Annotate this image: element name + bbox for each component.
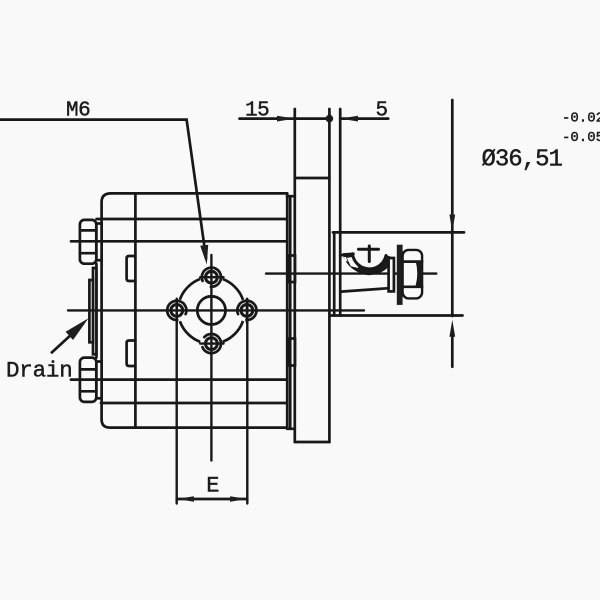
svg-text:-0.05: -0.05 bbox=[562, 130, 600, 146]
bottom bolt hex head bbox=[80, 358, 96, 402]
shaft taper bottom edge bbox=[341, 288, 389, 291]
svg-text:5: 5 bbox=[376, 100, 389, 123]
diameter dim line lower bbox=[451, 334, 454, 367]
pump body right edge bbox=[286, 193, 289, 426]
diameter dim line upper bbox=[451, 100, 454, 316]
centerline vertical bbox=[210, 255, 212, 461]
hole tick bottom bbox=[200, 342, 223, 344]
E dimension line bbox=[177, 498, 248, 501]
shaft top edge stub bbox=[340, 253, 344, 256]
flange boss upper bbox=[290, 256, 295, 283]
extension line pilot face bbox=[339, 109, 342, 316]
dimension line 5 bbox=[340, 117, 388, 120]
key top rim bbox=[344, 253, 354, 256]
pilot spigot inner line bbox=[333, 232, 336, 315]
extension line flange rear bbox=[293, 109, 296, 442]
mounting hole bottom bbox=[203, 334, 222, 353]
bolt circle bbox=[178, 277, 244, 343]
hole masks bbox=[166, 266, 259, 355]
M6 leader bbox=[0, 120, 206, 259]
mounting hole top M6 bbox=[202, 268, 221, 287]
key cross vertical bbox=[368, 246, 371, 262]
mounting hole right bbox=[237, 301, 256, 320]
E arrow right bbox=[230, 496, 247, 502]
neck bottom bbox=[287, 427, 295, 430]
arrow 5 bbox=[340, 116, 358, 122]
body line upper bbox=[97, 218, 288, 221]
flange boss lower bbox=[290, 339, 295, 366]
nut chamfer face bbox=[416, 261, 423, 286]
E extension line right bbox=[246, 299, 248, 504]
centerline shaft bbox=[266, 272, 436, 274]
key cross horizontal bbox=[359, 248, 379, 251]
svg-text:15: 15 bbox=[245, 100, 269, 123]
body line lower bbox=[101, 402, 287, 405]
flange bottom edge bbox=[295, 441, 330, 444]
plain washer bbox=[389, 258, 394, 291]
rear cover face line bbox=[95, 264, 98, 358]
dimension line 15 bbox=[240, 117, 330, 120]
key bowl semicircle bbox=[353, 254, 387, 269]
drain arrowhead bbox=[66, 318, 89, 340]
svg-text:Drain: Drain bbox=[6, 358, 73, 384]
top bolt hex head bbox=[80, 220, 96, 264]
neck top bbox=[287, 195, 295, 198]
diameter arrow down bbox=[449, 215, 455, 232]
key white patch bbox=[347, 257, 359, 268]
top bolt washer bbox=[96, 224, 101, 261]
bottom bolt washer bbox=[96, 362, 101, 399]
shaft top edge right stub bbox=[385, 256, 389, 259]
M6 leader arrowhead bbox=[200, 245, 208, 265]
drain leader bbox=[52, 333, 73, 353]
center bore circle bbox=[197, 296, 225, 324]
svg-text:Ø36,51: Ø36,51 bbox=[482, 147, 563, 174]
key white patch 2 bbox=[344, 257, 348, 262]
rear plate B bbox=[89, 280, 93, 342]
cover port boss upper bbox=[127, 256, 136, 281]
woodruff key crescent bbox=[344, 254, 394, 275]
body line top-bolt bbox=[71, 240, 287, 243]
hole tick left bbox=[176, 299, 178, 323]
mounting hole left bbox=[167, 301, 186, 320]
extension line mounting face bbox=[328, 109, 331, 442]
pilot top boundary line bbox=[333, 231, 464, 234]
svg-text:M6: M6 bbox=[66, 99, 90, 122]
pilot bottom boundary line bbox=[331, 314, 463, 317]
body line bottom-bolt bbox=[71, 378, 287, 381]
pump body outline bbox=[102, 193, 288, 427]
diameter arrow up bbox=[449, 320, 455, 337]
svg-text:-0.02: -0.02 bbox=[562, 110, 600, 126]
centerline pattern horizontal bbox=[68, 309, 364, 311]
flange top edge bbox=[295, 177, 330, 180]
hole tick top bbox=[200, 276, 223, 278]
spring washer bbox=[397, 245, 403, 305]
shaft nut bbox=[403, 250, 423, 299]
dimension dot bbox=[326, 115, 334, 123]
cover port boss lower bbox=[127, 341, 136, 367]
arrow 15 bbox=[277, 116, 295, 122]
E arrow left bbox=[177, 496, 194, 502]
hole tick right bbox=[246, 299, 248, 323]
gasket line bbox=[289, 196, 292, 429]
E extension line left bbox=[175, 299, 177, 504]
svg-text:E: E bbox=[206, 473, 219, 498]
cover joint line bbox=[134, 193, 137, 427]
rear plate A bbox=[93, 268, 96, 354]
